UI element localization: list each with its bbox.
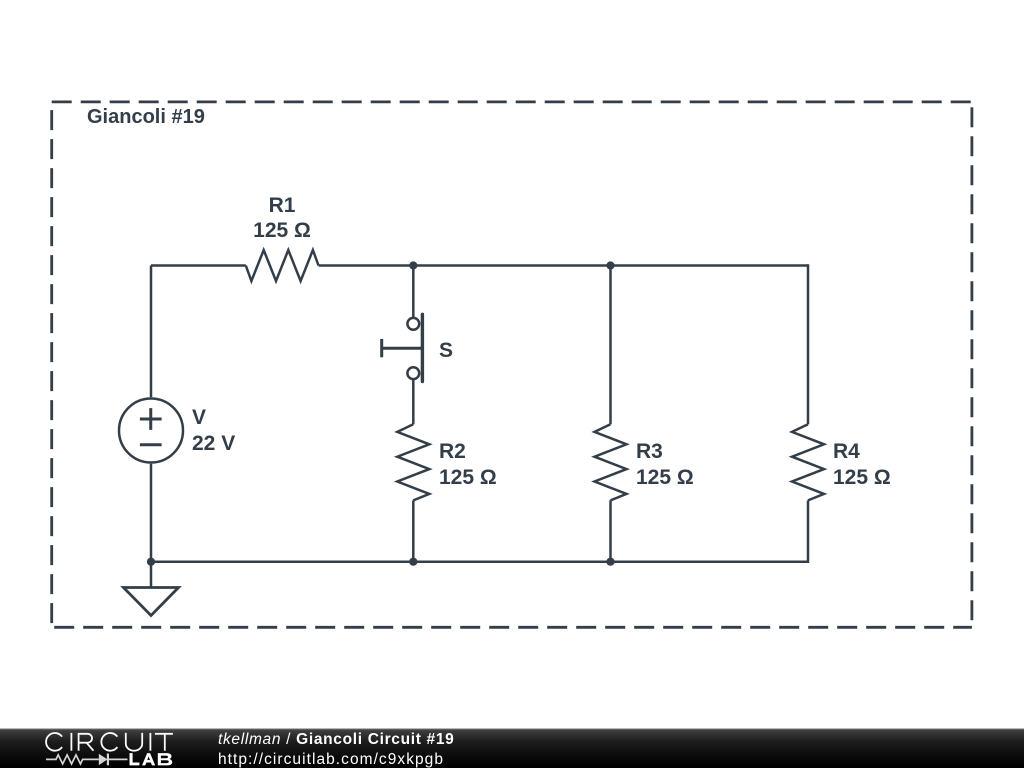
wire R2 to bottom rail [412,500,415,561]
resistor R3 [595,424,627,500]
label R1 [269,195,296,216]
node junction at R3 / bottom rail [606,558,614,566]
label R4 [833,441,860,462]
wire top rail middle segment [319,264,611,267]
wire node B down to R3 [609,266,612,425]
ground [124,588,179,616]
CircuitLab logo CIRCUIT wordmark [46,733,173,751]
footer url http://circuitlab.com/c9xkpgb [218,752,444,768]
wire R3 to bottom rail [609,500,612,561]
label V [192,407,206,428]
title Giancoli #19 [87,107,205,127]
wire R4 to bottom rail [807,500,810,563]
CircuitLab logo LAB [130,753,173,765]
wire R4 branch from top rail down [807,264,810,424]
node junction at R1 output / switch S [409,261,417,269]
label R3 [636,441,663,462]
resistor R1 [246,250,319,281]
label R2 value 125 Ω [439,467,497,488]
resistor R2 [397,424,429,500]
wire top rail left segment [151,264,246,267]
wire top rail right segment [611,264,809,267]
voltage source V [119,399,183,463]
label R3 value 125 Ω [636,467,694,488]
node junction at R3 top [606,261,614,269]
label R4 value 125 Ω [833,467,891,488]
label V value 22 V [192,433,235,454]
footer bar [0,729,1024,768]
label S [439,340,453,361]
wire ground lead [150,562,153,588]
wire bottom rail [151,560,808,563]
resistor R4 [792,424,824,500]
wire node A down to switch S [412,266,415,318]
wire switch S to R2 [412,380,415,424]
switch S (pushbutton, normally open) [382,314,423,381]
wire V- down to bottom rail [150,464,153,562]
label R2 [439,441,466,462]
wire V+ to top rail [150,266,153,398]
node junction at R2 / bottom rail [409,558,417,566]
footer title tkellman / Giancoli Circuit #19 [218,732,454,748]
label R1 value 125 Ω [253,220,311,241]
CircuitLab logo resistor-diode glyph [46,754,128,766]
node junction at V- / bottom rail [147,558,155,566]
